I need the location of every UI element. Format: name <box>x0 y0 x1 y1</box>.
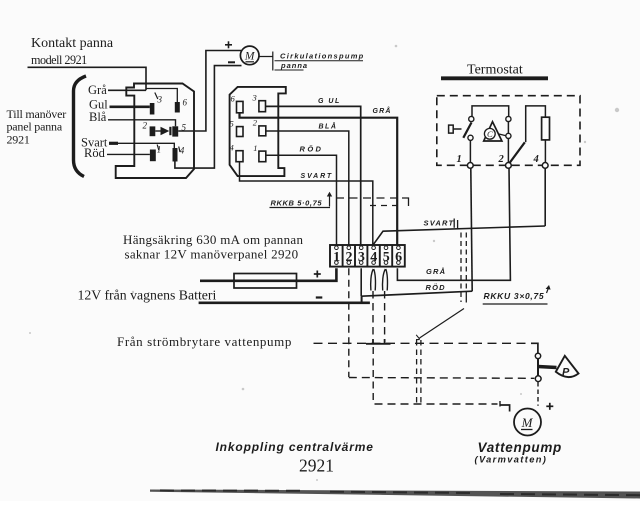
cable label RKKB 5x0,75 <box>270 192 409 208</box>
wire terminal 3 to RÖD and battery minus junction <box>361 268 472 303</box>
svg-text:2921: 2921 <box>299 456 334 476</box>
wire från strömbrytare dashed line <box>314 342 532 344</box>
pin 4 of K2 <box>230 143 244 162</box>
heading Kontakt panna modell 2921 <box>31 36 114 67</box>
wire right rail thermostat <box>507 122 509 163</box>
svg-text:BLÅ: BLÅ <box>319 122 338 131</box>
svg-text:GRÅ: GRÅ <box>426 267 446 276</box>
wire diagonal cable to vattenpump branch <box>420 309 465 339</box>
svg-text:2921: 2921 <box>7 132 30 146</box>
minus sign battery <box>316 296 323 298</box>
node label Till manöver panel panna 2921 <box>7 107 67 146</box>
svg-text:panna: panna <box>280 61 308 70</box>
svg-text:GRÅ: GRÅ <box>373 106 392 115</box>
pin 4 of K1 <box>173 146 185 162</box>
wire RÖD pin1 K2 to terminal 1 <box>266 145 337 245</box>
svg-text:M: M <box>244 51 256 63</box>
svg-text:SVART: SVART <box>301 173 334 180</box>
svg-text:2: 2 <box>498 154 505 165</box>
svg-text:RKKB 5·0,75: RKKB 5·0,75 <box>271 199 323 208</box>
thermostat heading <box>441 63 548 79</box>
wire GRÅ pin6 K2 to terminal 6 <box>240 106 398 245</box>
wire hook to motor M2 minus <box>500 405 510 412</box>
svg-text:RÖD: RÖD <box>426 283 446 292</box>
scan artifact bottom bar <box>150 490 640 499</box>
pin 5 of K1 <box>172 123 186 137</box>
pin 1 of K1 <box>150 145 161 162</box>
wire SVART pin4 K2 to terminal 4 <box>240 162 373 245</box>
motor M2 vattenpump <box>514 409 541 436</box>
wire pin5 K1 to pump plus <box>178 51 241 132</box>
label Cirkulationspump panna <box>275 52 365 71</box>
svg-text:Termostat: Termostat <box>467 63 523 78</box>
svg-text:M: M <box>521 415 534 430</box>
thermostat adjust screw <box>449 125 462 133</box>
wire battery minus <box>199 301 370 304</box>
svg-text:Vattenpump: Vattenpump <box>478 440 563 455</box>
pressure switch P body <box>556 356 579 379</box>
resistor R1 <box>542 117 550 140</box>
thermostat switch blade 2 <box>510 142 525 162</box>
svg-text:Grå: Grå <box>88 83 107 97</box>
svg-text:1: 1 <box>457 154 462 165</box>
wire motor M1 to label <box>259 52 273 71</box>
svg-text:Kontakt panna: Kontakt panna <box>31 36 114 51</box>
svg-text:Cirkulationspump: Cirkulationspump <box>280 52 365 61</box>
svg-text:2: 2 <box>253 118 258 128</box>
thermostat switch blade 1 <box>463 123 471 138</box>
fuse F1 <box>234 274 297 289</box>
pin 3 of K1 <box>150 93 163 115</box>
svg-text:RKKU 3×0,75: RKKU 3×0,75 <box>484 291 545 301</box>
svg-text:P: P <box>562 367 570 379</box>
svg-text:Blå: Blå <box>89 110 107 124</box>
wire terminal 5 hairpin stub dashed down <box>382 269 387 345</box>
wire Blå <box>89 110 176 126</box>
svg-text:SVART: SVART <box>424 219 455 228</box>
wire resistor to terminal 4 thermostat <box>544 140 546 163</box>
wire pin4 K1 to pump minus <box>175 66 242 169</box>
wire GUL pin3 K2 to terminal 3 <box>266 98 361 245</box>
wire terminal 2 dashed to pressure switch <box>349 268 535 378</box>
svg-text:1: 1 <box>157 145 162 155</box>
svg-text:5: 5 <box>230 119 234 129</box>
label Vattenpump (Varmvatten) <box>475 440 563 464</box>
thermostat sensor triangle C <box>484 122 506 141</box>
wire Röd <box>84 146 150 160</box>
svg-text:2: 2 <box>143 121 148 131</box>
motor M1 cirkulationspump panna <box>240 46 259 65</box>
svg-text:4: 4 <box>180 146 185 156</box>
connector K1 outline <box>116 84 194 179</box>
wire battery plus to terminal 1 <box>200 268 336 281</box>
connector K2 outline <box>230 87 286 176</box>
wire thermostat terminal 4 down to SVART <box>544 168 546 226</box>
wire Svart <box>81 136 174 150</box>
svg-text:(Varmvatten): (Varmvatten) <box>475 454 548 464</box>
svg-text:Hängsäkring 630 mA om pannan: Hängsäkring 630 mA om pannan <box>123 232 303 247</box>
wire Grå <box>88 83 177 102</box>
diode D1 <box>155 127 171 135</box>
svg-text:4: 4 <box>533 154 539 165</box>
thermostat contacts left <box>468 116 474 140</box>
svg-text:saknar 12V manöverpanel 2920: saknar 12V manöverpanel 2920 <box>125 247 299 262</box>
plus sign vattenpump <box>546 403 553 410</box>
pin 6 of K1 <box>175 98 188 113</box>
svg-text:6: 6 <box>183 98 188 108</box>
svg-text:modell 2921: modell 2921 <box>31 53 87 67</box>
wire blade2 to resistor branch <box>526 106 546 142</box>
pin 5 of K2 <box>230 119 244 137</box>
pin 1 of K2 <box>253 143 265 162</box>
thermostat terminal labels 1 2 4 <box>457 154 539 165</box>
wire heading underline to connector K1 <box>28 67 147 90</box>
wire terminal 6 to GRÅ to thermostat 2 <box>397 168 510 280</box>
svg-text:Inkoppling centralvärme: Inkoppling centralvärme <box>216 440 374 454</box>
terminal numbers 1-6 <box>333 250 402 265</box>
terminal strip X1 <box>330 245 405 267</box>
junction solid on från strömbrytare line <box>366 343 391 345</box>
wire contact to terminal 1 thermostat <box>469 140 471 162</box>
cable dashed pair down to pump minus line <box>417 340 421 404</box>
svg-text:Röd: Röd <box>84 146 106 160</box>
wire Gul <box>89 98 150 112</box>
thermostat top rail <box>472 106 509 116</box>
wire terminal 4 hairpin stub dashed down <box>371 269 376 345</box>
terminal contact circles <box>335 246 401 265</box>
scan speck artifacts <box>29 45 619 481</box>
plus sign battery <box>314 271 321 278</box>
pressure switch P lever <box>538 367 557 368</box>
svg-text:C: C <box>487 129 493 139</box>
bracket left brace <box>74 76 87 177</box>
minus sign cirkulationspump <box>228 61 235 63</box>
pin 3 of K2 <box>252 93 266 112</box>
wire BLÅ pin2 K2 to terminal 2 <box>266 122 349 245</box>
wire SVART thermostat line <box>374 219 546 245</box>
svg-text:3: 3 <box>157 95 163 105</box>
note Hängsäkring <box>123 232 303 262</box>
svg-text:1: 1 <box>253 143 257 153</box>
svg-text:G UL: G UL <box>318 98 341 105</box>
thermostat contacts right <box>506 116 511 138</box>
pin 2 of K1 <box>143 121 156 137</box>
pin 2 of K2 <box>253 118 266 136</box>
label RKKU 3x0,75 <box>483 285 551 304</box>
pressure switch P contacts <box>535 353 541 381</box>
cable to pump minus dashed <box>375 403 498 405</box>
svg-text:Från strömbrytare vattenpump: Från strömbrytare vattenpump <box>117 334 292 349</box>
svg-text:3: 3 <box>252 93 257 103</box>
wire thermostat terminal 1 down to RÖD <box>471 168 472 291</box>
svg-text:12V från vagnens Batteri: 12V från vagnens Batteri <box>78 288 217 303</box>
wire P to motor M2 plus dashed <box>537 382 539 406</box>
thermostat terminal circles 1 2 4 <box>467 163 548 169</box>
cable RKKU dashed pair SVART line down <box>461 233 466 303</box>
plus sign cirkulationspump <box>225 41 232 48</box>
thermostat dashed box <box>437 96 580 166</box>
cable dashed terminal 4 continues to pump minus line <box>372 347 374 404</box>
svg-text:RÖD: RÖD <box>300 145 324 154</box>
pin 6 of K2 <box>231 94 244 113</box>
